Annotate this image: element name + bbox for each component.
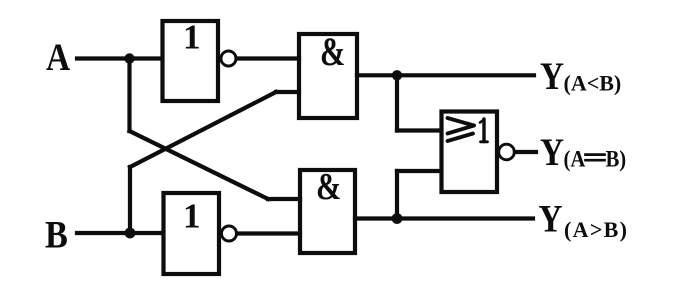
wire A branch diagonal [130,131,269,199]
AND gate G1 [299,34,357,118]
svg-text:1: 1 [183,18,201,57]
wire A branch to G2 input [268,197,300,201]
wire G2 output to Y(A&gt;B) [355,216,533,220]
node G2 output junction [392,213,403,224]
node G1 output junction [392,70,402,80]
wire junction down [395,75,399,130]
NOR gate G3 (IEC >=1 box) [442,112,498,193]
AND gate G2 [300,170,355,253]
output label Y(A=B) [540,131,626,174]
inversion bubble of G3 [499,144,515,160]
wire junction up [395,171,399,219]
label & of G2 [316,166,341,208]
node B junction [125,228,136,239]
svg-text:B): B) [606,147,627,172]
output label Y(A&gt;B) [539,197,629,242]
wire B input [77,231,163,235]
wire B branch vertical [128,167,132,233]
svg-text:(A>B): (A>B) [564,217,628,242]
inversion bubble of U2 [222,226,237,241]
wire A branch vertical [127,59,131,132]
node A junction [124,53,134,63]
wire to G3 top input [397,128,441,132]
svg-text:(A<B): (A<B) [564,71,622,96]
svg-text:B: B [45,212,68,256]
svg-text:&: & [320,29,345,74]
inverter U1 (IEC 1 box) [163,21,219,101]
svg-text:&: & [316,166,341,208]
wire G1 output to Y(A&lt;B) [357,73,534,77]
svg-text:A: A [46,36,70,79]
wire A input [77,56,162,60]
wire B branch diagonal [130,92,276,167]
label 1 of U2 [183,197,201,236]
svg-text:Y: Y [540,54,564,97]
wire to G3 bottom input [397,169,441,173]
label & of G1 [320,29,345,74]
wire B branch to G1 input [276,90,299,94]
wire U1 output to G1 [237,56,300,60]
svg-text:Y: Y [540,131,564,174]
wire U2 output to G2 [237,231,300,235]
svg-text:Y: Y [539,197,563,240]
input label B [45,212,68,256]
label 1 of U1 [183,18,201,57]
svg-text:1: 1 [183,197,201,236]
inverter U2 (IEC 1 box) [164,193,220,274]
wire G3 output [515,150,536,154]
svg-text:(A: (A [564,147,586,172]
input label A [46,36,70,79]
label >=1 of G3 [448,118,488,142]
output label Y(A&lt;B) [540,54,621,97]
inversion bubble of U1 [221,51,236,66]
